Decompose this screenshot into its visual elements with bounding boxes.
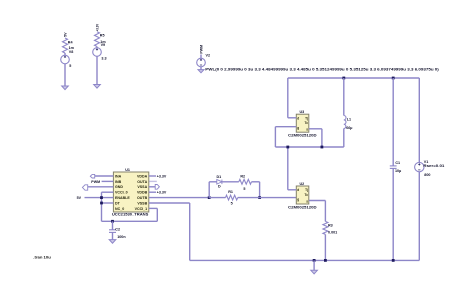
svg-text:INB: INB	[115, 180, 122, 184]
svg-text:V2: V2	[206, 54, 211, 58]
svg-text:5: 5	[231, 202, 233, 206]
port flag node INA	[90, 174, 94, 178]
svg-text:VSSA: VSSA	[137, 185, 147, 189]
junction 5V/ENABLE	[100, 196, 103, 199]
svg-text:VSSB: VSSB	[137, 201, 147, 205]
capacitor C2	[112, 221, 114, 230]
svg-text:5V: 5V	[63, 32, 67, 37]
wire to main ground	[313, 260, 315, 270]
wire R2 right	[252, 181, 260, 183]
transistor U2 body	[296, 186, 309, 204]
voltage source V2	[200, 55, 202, 59]
junction top rail / C1	[392, 77, 395, 80]
wire V8 to ground	[64, 64, 66, 86]
svg-text:INA: INA	[115, 174, 122, 178]
svg-text:Tj: Tj	[305, 116, 308, 120]
wire L1 down	[343, 129, 345, 148]
wire to U2 gate	[260, 197, 297, 199]
junction bottom rail / C1	[392, 259, 395, 262]
junction gate network left	[208, 196, 211, 199]
svg-text:.tran 10u: .tran 10u	[33, 256, 51, 260]
wire R1 right	[238, 197, 260, 199]
svg-text:66µ: 66µ	[346, 126, 352, 130]
svg-text:100n: 100n	[117, 235, 126, 239]
junction switch node / U3 source	[321, 146, 324, 149]
wire U2 drain up	[287, 147, 289, 190]
junction switch node / U2 drain	[286, 146, 289, 149]
svg-text:VCCI_1: VCCI_1	[135, 207, 148, 211]
svg-text:VDDB: VDDB	[137, 191, 148, 195]
svg-text:V8: V8	[69, 50, 74, 54]
svg-text:U1: U1	[125, 168, 130, 172]
svg-text:R3: R3	[328, 224, 333, 228]
svg-text:s: s	[306, 199, 308, 203]
ground branch A	[62, 86, 69, 90]
wire V1 up	[418, 78, 420, 162]
svg-text:C2M0025120D: C2M0025120D	[288, 206, 317, 210]
wire U2 source down	[324, 201, 326, 222]
wire U2 drain	[288, 189, 297, 191]
wire DT	[102, 202, 114, 204]
resistor R2	[239, 179, 252, 184]
svg-text:3.3: 3.3	[101, 57, 106, 61]
svg-text:UCC21530_TRANS: UCC21530_TRANS	[112, 213, 149, 217]
junction bottom rail / R3	[324, 259, 327, 262]
ground main	[311, 270, 318, 274]
wire below U1	[102, 220, 158, 222]
svg-text:C2M0025120D: C2M0025120D	[288, 134, 317, 138]
svg-text:U2: U2	[299, 182, 304, 186]
transistor U3 body	[296, 114, 309, 132]
wire INA	[95, 175, 114, 177]
diode D1	[217, 180, 222, 185]
svg-text:R2: R2	[240, 175, 245, 179]
wire U3 drain	[288, 117, 297, 119]
svg-text:Tc: Tc	[305, 193, 309, 197]
svg-text:L1: L1	[347, 118, 351, 122]
wire up to D1 branch	[208, 182, 210, 198]
junction gate network right	[258, 196, 261, 199]
svg-text:Tj: Tj	[305, 188, 308, 192]
svg-text:GND: GND	[115, 185, 123, 189]
svg-text:0.001: 0.001	[328, 231, 337, 235]
wire to D1	[209, 181, 217, 183]
port flag node VSSA	[155, 185, 159, 190]
svg-text:V9: V9	[101, 43, 106, 47]
wire U2 source	[309, 200, 326, 202]
wire OUTB	[149, 197, 209, 199]
svg-text:R5: R5	[100, 34, 105, 38]
wire 5V rail vertical	[101, 192, 103, 221]
wire switch-node rail	[275, 146, 343, 148]
svg-text:800: 800	[424, 173, 430, 177]
svg-text:Rser=0.01: Rser=0.01	[423, 164, 444, 168]
wire V9 to ground	[96, 56, 98, 84]
junction top rail / L1	[342, 77, 345, 80]
wire VDDB	[149, 191, 156, 193]
ground V2	[198, 70, 204, 73]
wire V2 to ground	[200, 67, 202, 70]
wire U3 source	[309, 128, 322, 130]
svg-text:C2: C2	[115, 228, 120, 232]
junction 5V/DT	[100, 202, 103, 205]
svg-text:Tc: Tc	[305, 121, 309, 125]
wire VSSB down	[189, 203, 191, 260]
resistor R4	[63, 38, 68, 53]
wire VCCI_1 down	[156, 208, 158, 221]
svg-text:OUTB: OUTB	[137, 196, 148, 200]
svg-text:PWM: PWM	[199, 45, 203, 54]
svg-text:g: g	[297, 126, 299, 130]
wire GND pin	[88, 186, 114, 188]
svg-text:+3.3V: +3.3V	[157, 175, 167, 179]
wire U3 gate	[275, 126, 296, 128]
junction C2 top	[111, 220, 114, 223]
svg-text:+3.3V: +3.3V	[95, 23, 99, 31]
ground C2	[109, 240, 116, 244]
svg-text:d: d	[297, 116, 299, 120]
wire down to main	[259, 182, 261, 198]
svg-text:PWM: PWM	[91, 180, 100, 184]
svg-text:5V: 5V	[77, 196, 82, 200]
resistor R1	[226, 195, 238, 200]
wire VCCI_0	[102, 191, 114, 193]
wire VSSA	[149, 186, 155, 188]
port flag node GND	[82, 185, 87, 190]
wire U3 gate down	[274, 127, 276, 147]
svg-text:R1: R1	[228, 190, 233, 194]
svg-text:10µ: 10µ	[395, 169, 401, 173]
svg-text:U3: U3	[299, 110, 304, 114]
svg-text:NC_0: NC_0	[115, 207, 124, 211]
resistor R5	[95, 32, 100, 47]
wire U3 drain up	[287, 78, 289, 118]
svg-text:ENABLE: ENABLE	[115, 196, 130, 200]
svg-text:5: 5	[69, 64, 71, 68]
wire VSSB	[149, 202, 190, 204]
wire ENABLE	[85, 197, 114, 199]
wire V1 down	[418, 172, 420, 261]
wire bottom rail	[190, 259, 420, 261]
ground branch B	[94, 85, 101, 89]
wire D1 to R2	[222, 181, 239, 183]
wire to R1	[209, 197, 225, 199]
wire U3 source down	[321, 129, 323, 147]
svg-text:C1: C1	[395, 161, 400, 165]
svg-text:D: D	[218, 185, 221, 189]
wire R3 down	[324, 234, 326, 260]
svg-text:DT: DT	[115, 201, 121, 205]
wire C1 up	[392, 78, 394, 166]
wire INB	[102, 180, 114, 182]
wire VCCI_1	[149, 207, 158, 209]
svg-text:PWL(0 0 2.99999u 0 3u 3.3 4.48: PWL(0 0 2.99999u 0 3u 3.3 4.48499999u 3.…	[205, 68, 439, 72]
wire C1 down	[392, 168, 394, 260]
wire VDDA	[149, 175, 156, 177]
junction bottom rail / ground	[313, 259, 316, 262]
svg-text:5: 5	[243, 187, 245, 191]
resistor R3	[323, 221, 328, 234]
voltage source V8	[64, 53, 66, 55]
svg-text:OUTA: OUTA	[137, 180, 147, 184]
svg-text:V1: V1	[424, 160, 429, 164]
svg-text:+3.3V: +3.3V	[157, 191, 167, 195]
op-amp U1 gate driver body	[113, 172, 148, 212]
svg-text:VDDA: VDDA	[137, 174, 148, 178]
svg-text:s: s	[306, 128, 308, 132]
svg-text:d: d	[297, 188, 299, 192]
wire OUTA stub	[149, 180, 157, 182]
inductor L1	[343, 78, 345, 116]
svg-text:g: g	[297, 198, 299, 202]
svg-text:D1: D1	[217, 175, 222, 179]
wire top rail	[288, 77, 420, 79]
svg-text:VCCI_0: VCCI_0	[115, 191, 128, 195]
voltage source V9	[96, 47, 98, 48]
